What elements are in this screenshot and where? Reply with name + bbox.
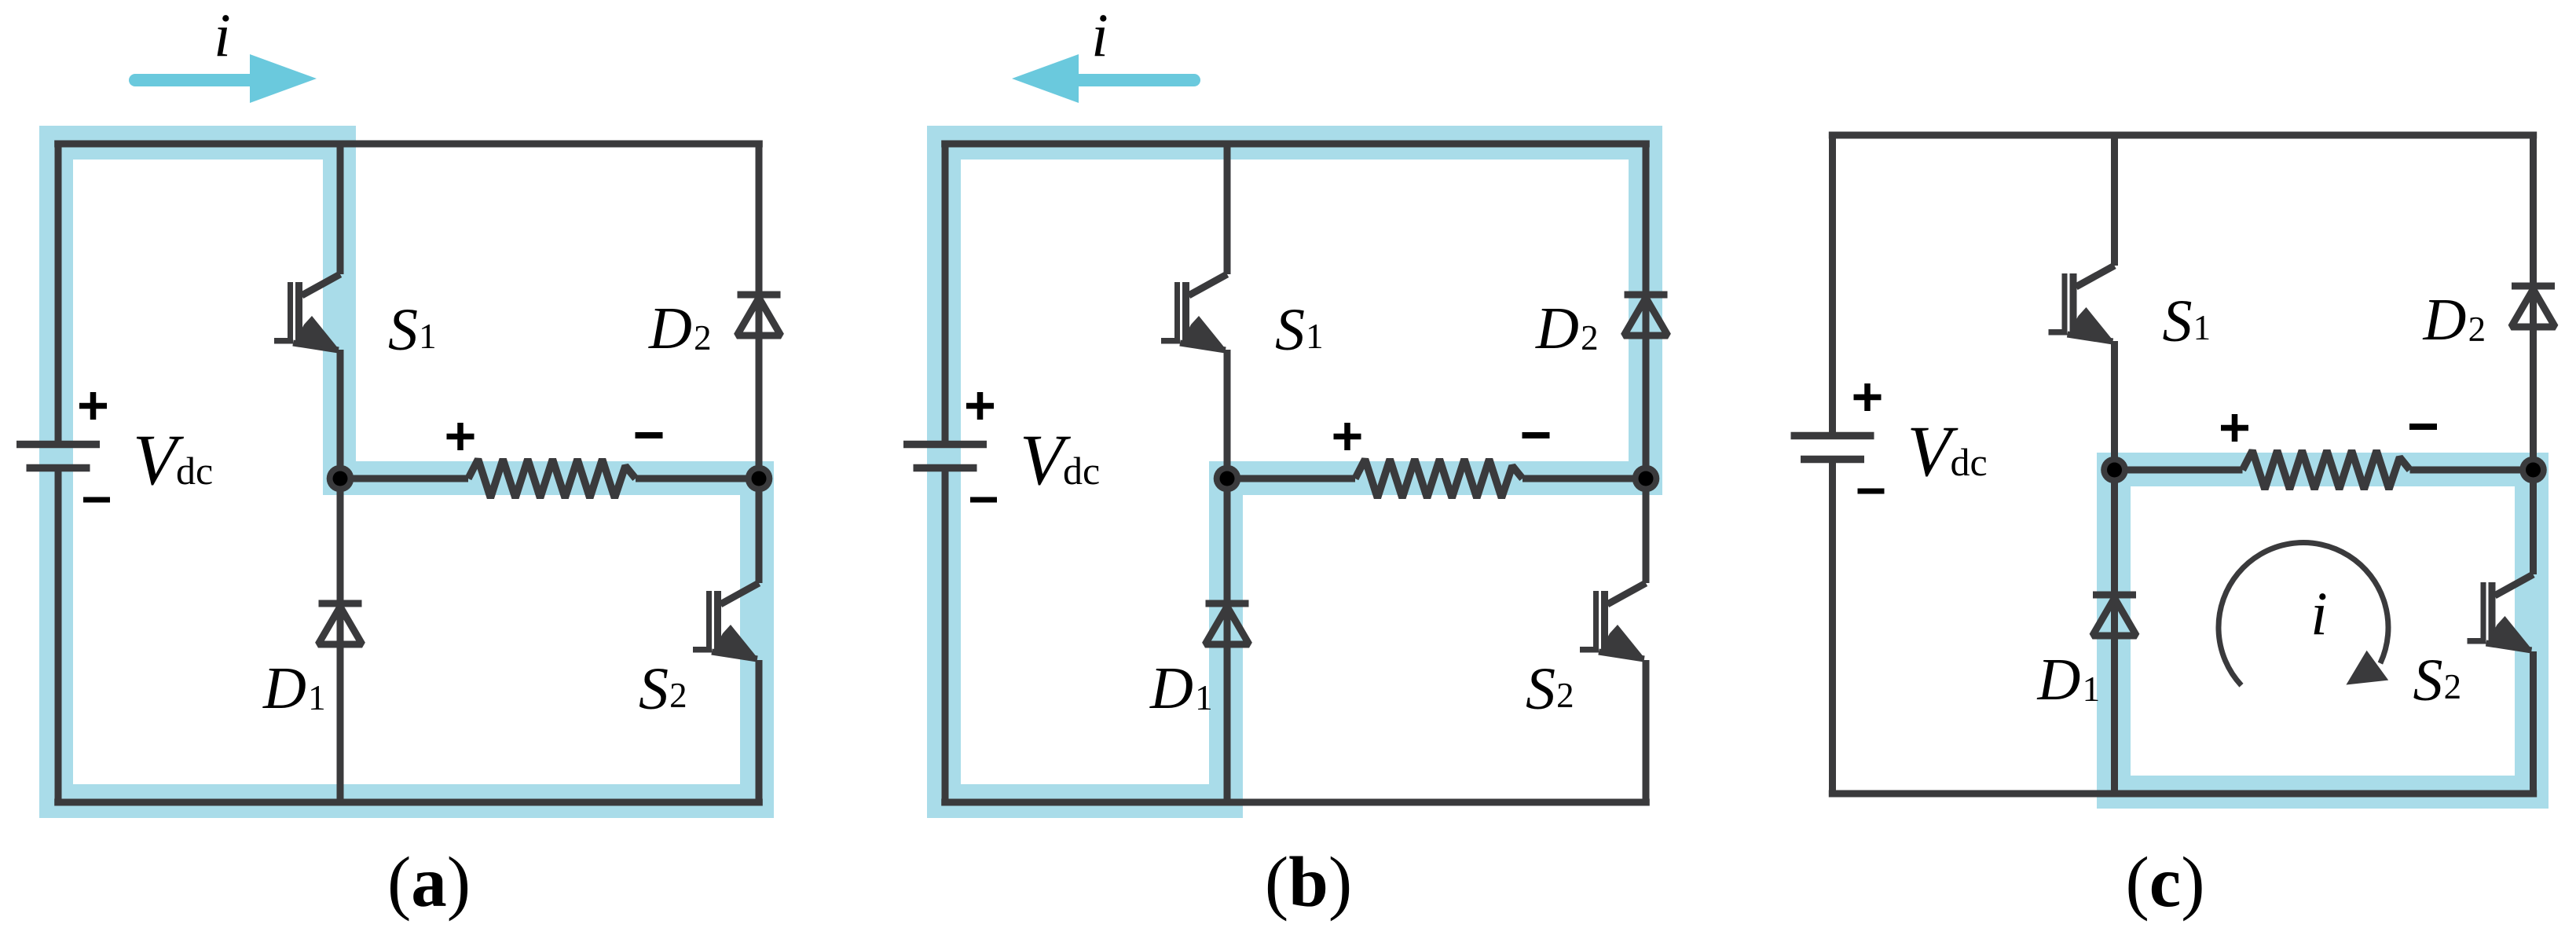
battery minus sign (a) bbox=[83, 497, 110, 503]
label D1 (c) bbox=[2037, 647, 2101, 713]
svg-text:(a): (a) bbox=[387, 842, 471, 922]
node A (c) bbox=[2101, 457, 2128, 484]
current direction arrow i (b) bbox=[1012, 54, 1194, 103]
svg-text:S: S bbox=[388, 297, 418, 363]
node B (b) bbox=[1632, 465, 1660, 493]
svg-text:1: 1 bbox=[2193, 308, 2211, 347]
current path highlight (b): source through D2, load, D1 bbox=[927, 126, 1662, 818]
svg-text:(c): (c) bbox=[2125, 842, 2204, 922]
svg-text:S: S bbox=[639, 656, 669, 722]
wire left lower (a) bbox=[55, 468, 62, 806]
wire left lower (c) bbox=[1829, 460, 1836, 798]
node A (b) bbox=[1214, 465, 1241, 493]
wire left upper (b) bbox=[942, 141, 949, 445]
battery source Vdc (b) bbox=[903, 445, 987, 468]
diode D1 (c) bbox=[2093, 595, 2137, 636]
svg-text:D: D bbox=[2423, 287, 2467, 353]
diode D1 (b) bbox=[1205, 603, 1249, 644]
svg-text:1: 1 bbox=[419, 317, 437, 356]
wire right emitter to bottom (a) bbox=[756, 660, 763, 806]
wire D1 column node A to bottom (b) bbox=[1224, 479, 1231, 802]
load plus sign (a) bbox=[447, 423, 475, 450]
svg-text:S: S bbox=[1526, 656, 1555, 722]
svg-text:1: 1 bbox=[1195, 678, 1213, 717]
wire resistor to node B (c) bbox=[2410, 467, 2534, 474]
wire top (c) bbox=[1829, 132, 2537, 139]
wire bottom (a) bbox=[54, 799, 763, 806]
wire left upper (c) bbox=[1829, 132, 1836, 436]
diode D2 (b) bbox=[1624, 295, 1668, 336]
wire S1 emitter to node A (b) bbox=[1224, 350, 1231, 479]
svg-text:2: 2 bbox=[2468, 310, 2486, 349]
label S1 (c) bbox=[2163, 288, 2211, 354]
transistor S1 (c) (IGBT) bbox=[2049, 266, 2115, 342]
label Vdc (c) bbox=[1907, 411, 1988, 491]
svg-text:dc: dc bbox=[1063, 449, 1100, 493]
wire bottom (c) bbox=[1829, 790, 2537, 798]
label D2 (c) bbox=[2423, 287, 2486, 353]
load minus sign (c) bbox=[2409, 424, 2437, 430]
svg-text:2: 2 bbox=[1556, 676, 1574, 715]
wire S1 collector column (b) bbox=[1224, 141, 1231, 275]
svg-text:S: S bbox=[1275, 297, 1305, 363]
svg-text:1: 1 bbox=[308, 678, 326, 717]
transistor S1 (b) (IGBT) bbox=[1161, 274, 1227, 350]
battery minus sign (c) bbox=[1858, 489, 1885, 494]
load plus sign (c) bbox=[2221, 414, 2248, 442]
svg-text:S: S bbox=[2163, 288, 2193, 354]
svg-text:dc: dc bbox=[176, 449, 213, 493]
battery minus sign (b) bbox=[970, 497, 997, 503]
label D1 (a) bbox=[262, 655, 326, 721]
svg-text:2: 2 bbox=[2444, 667, 2462, 706]
svg-text:i: i bbox=[1091, 1, 1108, 69]
wire D1 column node A to bottom (a) bbox=[337, 479, 344, 802]
current path highlight (c): freewheeling loop D1, load, S2 bbox=[2097, 453, 2549, 809]
wire S1 collector column (c) bbox=[2111, 132, 2118, 266]
svg-text:dc: dc bbox=[1951, 440, 1988, 484]
resistor load R (b) bbox=[1355, 460, 1523, 498]
load minus sign (b) bbox=[1523, 432, 1550, 438]
diode D2 (c) bbox=[2512, 286, 2556, 327]
node B (c) bbox=[2519, 457, 2547, 484]
wire node A to resistor (a) bbox=[340, 475, 468, 482]
svg-text:(b): (b) bbox=[1265, 842, 1352, 922]
label D1 (b) bbox=[1149, 655, 1213, 721]
transistor S2 (c) (IGBT) bbox=[2468, 574, 2534, 651]
wire right emitter to bottom (b) bbox=[1643, 660, 1650, 806]
label D2 (b) bbox=[1535, 295, 1599, 361]
wire right / D2-S2 column (a) bbox=[756, 141, 763, 584]
wire right emitter to bottom (c) bbox=[2530, 651, 2537, 798]
svg-text:2: 2 bbox=[1581, 318, 1599, 358]
label S2 (b) bbox=[1526, 656, 1574, 722]
current path highlight (a): source through S1, load, S2 bbox=[39, 126, 774, 818]
diode D2 (a) bbox=[737, 295, 781, 336]
load minus sign (a) bbox=[636, 432, 663, 438]
battery plus sign (c) bbox=[1854, 383, 1882, 411]
battery plus sign (a) bbox=[79, 392, 107, 420]
svg-text:i: i bbox=[214, 1, 231, 69]
wire resistor to node B (a) bbox=[636, 475, 759, 482]
wire top (b) bbox=[941, 141, 1650, 148]
wire node A to resistor (b) bbox=[1227, 475, 1355, 482]
resistor load R (a) bbox=[468, 460, 636, 498]
label S2 (a) bbox=[639, 656, 687, 722]
load plus sign (b) bbox=[1334, 423, 1361, 450]
svg-text:1: 1 bbox=[2083, 669, 2101, 709]
transistor S1 (a) (IGBT) bbox=[274, 274, 340, 350]
wire S1 collector column (a) bbox=[337, 141, 344, 275]
wire left lower (b) bbox=[942, 468, 949, 806]
wire resistor to node B (b) bbox=[1523, 475, 1646, 482]
label D2 (a) bbox=[648, 295, 712, 361]
label S2 (c) bbox=[2413, 647, 2462, 713]
diode D1 (a) bbox=[318, 603, 362, 644]
label S1 (b) bbox=[1275, 297, 1324, 363]
label S1 (a) bbox=[388, 297, 437, 363]
svg-text:i: i bbox=[2310, 579, 2328, 647]
svg-text:D: D bbox=[1149, 655, 1193, 721]
transistor S2 (b) (IGBT) bbox=[1580, 583, 1646, 659]
current direction arrow i (a) bbox=[135, 54, 317, 103]
svg-text:D: D bbox=[1535, 295, 1579, 361]
battery plus sign (b) bbox=[966, 392, 994, 420]
svg-text:2: 2 bbox=[669, 676, 687, 715]
battery source Vdc (a) bbox=[16, 445, 100, 468]
wire left upper (a) bbox=[55, 141, 62, 445]
transistor S2 (a) (IGBT) bbox=[693, 583, 759, 659]
svg-text:D: D bbox=[648, 295, 692, 361]
wire S1 emitter to node A (c) bbox=[2111, 341, 2118, 470]
resistor load R (c) bbox=[2243, 451, 2410, 490]
label Vdc (b) bbox=[1020, 420, 1100, 500]
svg-text:1: 1 bbox=[1306, 317, 1324, 356]
node A (a) bbox=[327, 465, 354, 493]
wire node A to resistor (c) bbox=[2115, 467, 2243, 474]
wire right / D2-S2 column (c) bbox=[2530, 132, 2537, 575]
label Vdc (a) bbox=[133, 420, 213, 500]
wire top (a) bbox=[54, 141, 763, 148]
wire bottom (b) bbox=[941, 799, 1650, 806]
wire D1 column node A to bottom (c) bbox=[2111, 470, 2118, 794]
svg-text:D: D bbox=[2037, 647, 2081, 713]
svg-text:D: D bbox=[262, 655, 306, 721]
battery source Vdc (c) bbox=[1791, 436, 1874, 460]
wire S1 emitter to node A (a) bbox=[337, 350, 344, 479]
wire right / D2-S2 column (b) bbox=[1643, 141, 1650, 584]
svg-text:2: 2 bbox=[694, 318, 712, 358]
circulating current arrow i (c) bbox=[2219, 543, 2388, 686]
node B (a) bbox=[746, 465, 773, 493]
svg-text:S: S bbox=[2413, 647, 2443, 713]
